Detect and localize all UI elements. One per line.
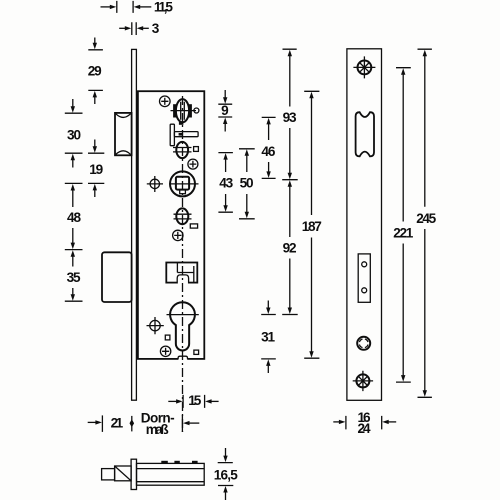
dimension 48 xyxy=(65,183,83,249)
svg-text:30: 30 xyxy=(67,128,81,143)
svg-text:35: 35 xyxy=(67,270,81,285)
dimension 93 xyxy=(282,49,298,180)
svg-text:50: 50 xyxy=(240,176,254,191)
screw C bottom (front view) xyxy=(353,371,373,391)
label Dornmass with leader xyxy=(141,410,200,437)
svg-text:maß: maß xyxy=(146,422,169,437)
euro profile cylinder hole xyxy=(167,302,199,350)
middle oval element xyxy=(173,142,192,158)
screw S1 top-left phillips xyxy=(160,96,171,107)
follower with square spindle hole xyxy=(170,171,199,196)
dimension 46 xyxy=(261,117,275,178)
top oval element (lock pin) xyxy=(171,99,197,125)
bottom view: lock case xyxy=(137,463,205,485)
dimension 43 xyxy=(218,153,233,213)
svg-text:19: 19 xyxy=(89,162,103,177)
lock case body xyxy=(138,91,204,359)
bottom view: latch bolt with bevel xyxy=(102,466,132,481)
dimension 221 xyxy=(393,68,413,382)
svg-text:16,5: 16,5 xyxy=(214,468,238,483)
vertical centerline through lock elements xyxy=(182,96,184,432)
dimension 15 xyxy=(168,393,218,408)
lower oval element xyxy=(174,208,192,224)
svg-text:92: 92 xyxy=(283,240,297,255)
dimension 29 xyxy=(88,38,103,105)
svg-text:29: 29 xyxy=(88,64,102,79)
dimension 187 xyxy=(302,91,322,358)
screw A top (front view) xyxy=(353,56,375,78)
case bottom notch xyxy=(178,356,187,361)
bottom view: faceplate bar xyxy=(131,459,136,489)
dimension 245 xyxy=(416,49,436,397)
bottom view: screw bumps on case xyxy=(161,461,168,464)
svg-text:31: 31 xyxy=(261,330,275,345)
screw B torx (front view) xyxy=(357,337,370,350)
dimension 30 xyxy=(65,99,83,168)
screw S2 phillips xyxy=(188,159,198,169)
deadbolt tail box xyxy=(166,263,197,284)
dimension 11,5 xyxy=(101,0,174,15)
small circle left of follower xyxy=(147,176,163,192)
small rect right of lower oval xyxy=(190,224,197,228)
screw S4 phillips xyxy=(160,346,170,356)
svg-text:48: 48 xyxy=(67,210,81,225)
dimension 21 xyxy=(88,415,134,432)
dimension 19 xyxy=(88,140,104,198)
small circle left of cylinder xyxy=(147,317,164,334)
svg-text:11,5: 11,5 xyxy=(154,0,173,15)
svg-text:9: 9 xyxy=(221,103,229,118)
svg-text:43: 43 xyxy=(219,176,233,191)
dimension 3 xyxy=(119,21,160,36)
dimension 16 over 24 xyxy=(333,410,396,436)
dimension 31 xyxy=(261,301,276,374)
latch cutout in faceplate xyxy=(356,112,374,156)
latch bolt (side view) xyxy=(115,113,132,155)
strike box with two holes xyxy=(358,254,370,302)
small square lower-left xyxy=(165,335,170,340)
dimension 92 xyxy=(282,180,298,314)
dimension 16,5 xyxy=(214,448,238,500)
screw S3 phillips xyxy=(173,230,183,240)
svg-text:46: 46 xyxy=(261,144,275,159)
svg-text:3: 3 xyxy=(152,21,160,36)
svg-text:15: 15 xyxy=(188,393,201,408)
svg-text:24: 24 xyxy=(358,421,371,436)
svg-text:93: 93 xyxy=(283,110,297,125)
faceplate side view (left view) xyxy=(132,49,137,400)
svg-text:221: 221 xyxy=(393,225,413,240)
svg-text:245: 245 xyxy=(416,211,436,226)
svg-text:187: 187 xyxy=(302,219,322,234)
change lever xyxy=(170,124,198,146)
small rect right of middle oval xyxy=(194,147,199,152)
small circle right of top oval xyxy=(194,108,199,113)
faceplate front view (right view) xyxy=(347,49,382,401)
dimension 9 xyxy=(218,90,232,132)
dimension 50 xyxy=(239,149,255,219)
small square lower-right xyxy=(194,350,199,354)
deadbolt (side view) xyxy=(102,252,132,302)
svg-text:21: 21 xyxy=(111,416,124,431)
dimension 35 xyxy=(65,250,83,301)
